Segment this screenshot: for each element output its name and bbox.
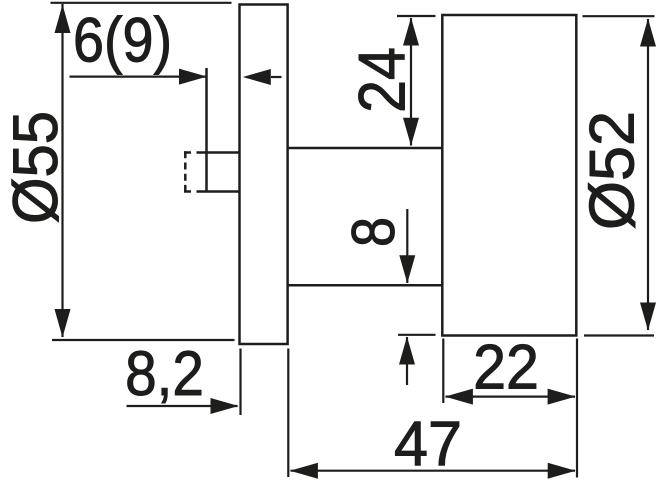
svg-text:8: 8 [340, 217, 407, 247]
svg-text:22: 22 [473, 332, 539, 402]
svg-text:6(9): 6(9) [73, 5, 172, 76]
svg-text:8,2: 8,2 [125, 338, 204, 408]
svg-text:Ø52: Ø52 [578, 111, 648, 230]
svg-text:24: 24 [346, 47, 420, 113]
svg-text:47: 47 [394, 410, 462, 480]
svg-text:Ø55: Ø55 [1, 111, 72, 224]
